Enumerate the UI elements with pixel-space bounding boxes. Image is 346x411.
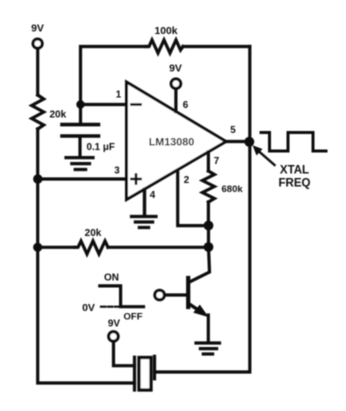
wire pin 3 input bbox=[38, 166, 127, 180]
node junction left rail / pin 3 bbox=[33, 174, 42, 183]
svg-text:20k: 20k bbox=[85, 228, 102, 239]
resistor R1 20k vertical bbox=[32, 95, 67, 129]
resistor R2 100k bbox=[146, 26, 183, 53]
svg-text:680k: 680k bbox=[222, 184, 244, 195]
wire emitter bbox=[207, 315, 210, 341]
wire switch terminal to crystal bbox=[114, 341, 135, 366]
terminal base input bbox=[155, 290, 165, 300]
svg-text:LM13080: LM13080 bbox=[149, 137, 195, 149]
waveform ON/OFF control step bbox=[82, 273, 143, 323]
wire pin 5 output bbox=[226, 125, 250, 142]
wire 680k to junction bbox=[207, 202, 210, 226]
wire right rail (top corner down to output node) bbox=[248, 47, 251, 142]
svg-text:5: 5 bbox=[230, 125, 236, 136]
wire pin 2 stem bbox=[178, 172, 209, 225]
resistor R3 680k bbox=[202, 171, 243, 202]
svg-text:OFF: OFF bbox=[124, 312, 143, 323]
wire top feedback (left vertical + top run to 100k) bbox=[81, 47, 147, 105]
wire left rail lower (resistor to bottom corner, then right to crystal) bbox=[38, 129, 135, 383]
terminal 9V top-left bbox=[31, 23, 44, 49]
node junction 20k / collector bbox=[204, 242, 214, 252]
svg-text:6: 6 bbox=[183, 100, 189, 111]
op-amp U1 LM13080 bbox=[127, 82, 227, 200]
wire top run (100k to right rail corner) bbox=[183, 45, 250, 48]
svg-text:FREQ: FREQ bbox=[279, 178, 311, 190]
terminal 9V switch bbox=[108, 319, 121, 342]
wire base input bbox=[165, 293, 189, 296]
capacitor C1 0.1uF bbox=[62, 105, 115, 156]
svg-text:4: 4 bbox=[150, 190, 156, 201]
resistor R4 20k horizontal bbox=[38, 228, 209, 254]
svg-text:3: 3 bbox=[114, 166, 120, 177]
wire left rail upper (9V terminal to resistor) bbox=[36, 48, 39, 95]
svg-text:1: 1 bbox=[116, 90, 122, 101]
wire collector bbox=[189, 247, 210, 283]
svg-text:9V: 9V bbox=[169, 63, 182, 75]
node junction pin1 / cap / feedback bbox=[76, 100, 84, 108]
svg-text:0V: 0V bbox=[82, 302, 95, 314]
svg-text:20k: 20k bbox=[50, 109, 67, 120]
svg-text:9V: 9V bbox=[31, 23, 44, 35]
svg-text:7: 7 bbox=[214, 156, 220, 167]
terminal 9V at pin 6 bbox=[169, 63, 182, 89]
svg-text:XTAL: XTAL bbox=[280, 165, 309, 177]
wire pin 4 stem bbox=[145, 190, 156, 215]
waveform output square wave bbox=[261, 133, 326, 152]
wire pin 1 input bbox=[81, 90, 127, 105]
arrow XTAL FREQ pointer bbox=[253, 145, 311, 189]
wire junction to junction bbox=[207, 226, 210, 248]
svg-text:0.1 μF: 0.1 μF bbox=[87, 142, 115, 153]
node junction left rail / 20k horizontal bbox=[33, 243, 42, 252]
crystal Y1 XTAL bbox=[135, 356, 155, 390]
ground below pin 4 bbox=[132, 217, 157, 228]
wire crystal to right rail bbox=[155, 142, 250, 373]
wire pin 7 stem bbox=[208, 152, 219, 171]
node junction pin2 / 680k bbox=[204, 221, 214, 231]
svg-text:100k: 100k bbox=[154, 26, 177, 37]
svg-text:ON: ON bbox=[104, 273, 119, 284]
ground below capacitor bbox=[66, 158, 93, 170]
transistor Q1 bbox=[188, 278, 209, 317]
ground below emitter bbox=[196, 343, 220, 354]
svg-text:2: 2 bbox=[184, 175, 190, 186]
wire pin 6 to 9V bbox=[176, 89, 189, 112]
node output junction bbox=[244, 137, 254, 147]
svg-text:9V: 9V bbox=[108, 319, 121, 330]
